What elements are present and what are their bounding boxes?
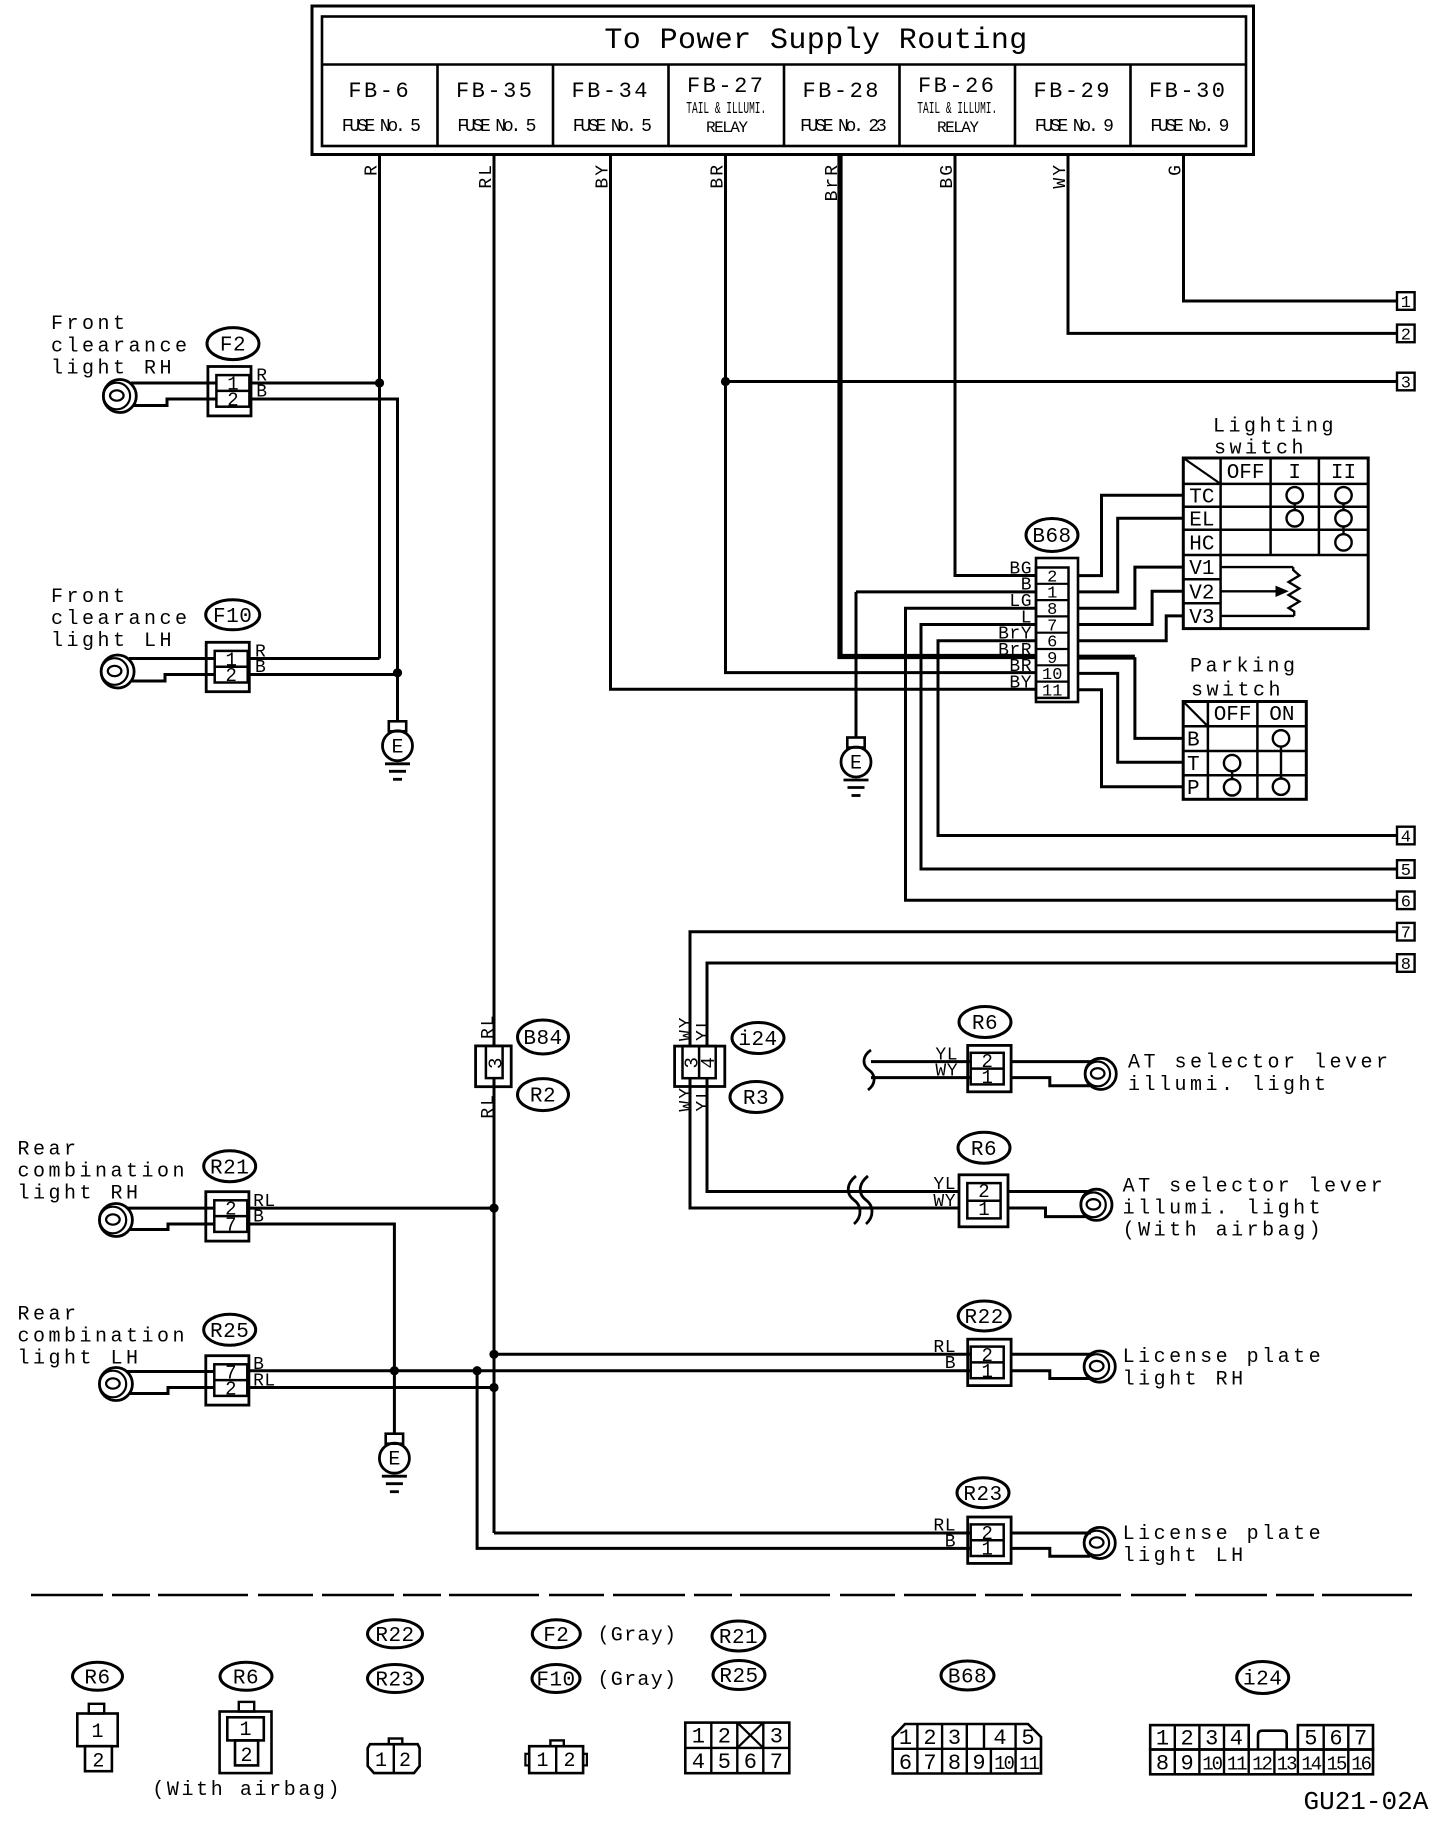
svg-text:(With airbag): (With airbag)	[152, 1779, 342, 1802]
connector ref F10	[206, 600, 260, 630]
svg-text:B: B	[1187, 730, 1200, 753]
svg-text:FB-28: FB-28	[802, 79, 881, 104]
wire RL R25 to RL vertical	[246, 1386, 494, 1389]
wire B68 pin8 to lighting V1	[1078, 567, 1183, 608]
connector ref B68	[1026, 519, 1078, 552]
break symbol R6 wires	[864, 1050, 874, 1090]
legend ref R21	[712, 1621, 765, 1651]
svg-text:8: 8	[1401, 956, 1411, 975]
lamp license plate RH	[1084, 1351, 1115, 1382]
svg-text:illumi. light: illumi. light	[1123, 1198, 1325, 1221]
svg-text:2: 2	[225, 1379, 236, 1401]
svg-text:9: 9	[972, 1751, 985, 1776]
wire RL to license RH	[494, 1353, 971, 1356]
svg-text:OFF: OFF	[1227, 462, 1265, 485]
connector i24	[675, 1046, 725, 1086]
svg-text:RL: RL	[479, 1093, 499, 1119]
svg-text:1: 1	[981, 1361, 992, 1383]
wire B net to license RH	[246, 1369, 971, 1372]
wire R22 pin1 to lamp	[1010, 1371, 1090, 1379]
junction B/R25	[390, 1366, 399, 1375]
svg-text:light RH: light RH	[18, 1182, 142, 1205]
junction RL/R25	[489, 1383, 498, 1392]
legend ref F10	[532, 1665, 580, 1693]
svg-text:AT selector lever: AT selector lever	[1128, 1052, 1392, 1075]
svg-text:6: 6	[1401, 893, 1411, 912]
svg-text:4: 4	[692, 1750, 705, 1775]
svg-text:1: 1	[981, 1067, 992, 1089]
svg-text:7: 7	[225, 1215, 236, 1237]
ground E front clearance	[389, 721, 406, 731]
svg-text:FB-26: FB-26	[918, 74, 997, 99]
svg-text:10: 10	[994, 1753, 1014, 1775]
lighting contact EL-I	[1287, 510, 1303, 526]
svg-text:6: 6	[744, 1750, 757, 1775]
svg-text:R22: R22	[965, 1307, 1004, 1330]
wire RL B84 to rear lights	[493, 1078, 496, 1533]
wire R25 pin2 RL	[130, 1388, 214, 1394]
parking contact T-OFF	[1224, 755, 1240, 771]
parking contact B-ON	[1273, 730, 1289, 746]
lamp rear combination LH	[99, 1368, 132, 1401]
lamp front clearance LH	[101, 655, 134, 688]
svg-text:11: 11	[1019, 1753, 1039, 1775]
wire F2 pin1 R to junction	[131, 382, 216, 385]
svg-text:1: 1	[899, 1726, 912, 1751]
svg-text:Rear: Rear	[18, 1139, 80, 1162]
svg-text:5: 5	[1401, 862, 1411, 881]
svg-text:F2: F2	[543, 1625, 569, 1648]
svg-text:10: 10	[1202, 1754, 1222, 1776]
lighting header diagonal	[1183, 458, 1220, 484]
legend ref R22	[368, 1620, 423, 1648]
svg-text:4: 4	[1401, 829, 1411, 848]
wire B to license LH	[477, 1371, 971, 1549]
svg-text:R6: R6	[84, 1667, 110, 1690]
svg-text:B: B	[945, 1532, 956, 1552]
svg-text:Front: Front	[51, 313, 129, 336]
wire B68 pin7 L to terminal 5	[921, 625, 1397, 870]
svg-text:V1: V1	[1189, 558, 1214, 581]
rheostat V1 feed	[1221, 566, 1294, 568]
junction RL/R22	[489, 1350, 498, 1359]
wire RL vertical FB-35 to B84	[493, 155, 496, 1046]
lamp AT selector lever illumi light (with airbag)	[1081, 1189, 1112, 1220]
svg-text:8: 8	[948, 1751, 961, 1776]
svg-text:4: 4	[1230, 1727, 1243, 1752]
power supply routing box	[312, 6, 1254, 155]
svg-text:E: E	[850, 753, 862, 776]
svg-text:FUSE No. 9: FUSE No. 9	[1035, 117, 1113, 137]
svg-text:EL: EL	[1189, 509, 1214, 532]
svg-text:R6: R6	[233, 1667, 259, 1690]
svg-text:TC: TC	[1189, 486, 1214, 509]
svg-text:(Gray): (Gray)	[598, 1625, 678, 1648]
ground E rear combination	[386, 1434, 403, 1444]
svg-text:R22: R22	[375, 1625, 414, 1648]
parking contact P-OFF	[1224, 779, 1240, 795]
svg-text:YL: YL	[694, 1015, 714, 1041]
svg-text:3: 3	[948, 1726, 961, 1751]
legend connector R22/R23	[389, 1739, 403, 1745]
junction B/F10	[393, 668, 402, 677]
wire B68 pin1 B to ground	[856, 590, 1036, 593]
wire R6 airbag pin2 to lamp	[1008, 1190, 1088, 1193]
wire WY to R6 pin1	[871, 1076, 971, 1079]
svg-text:B68: B68	[1032, 526, 1071, 549]
svg-text:Lighting: Lighting	[1213, 416, 1337, 439]
svg-text:WY: WY	[933, 1192, 956, 1212]
svg-text:ON: ON	[1269, 704, 1294, 727]
svg-text:1: 1	[1156, 1727, 1169, 1752]
wire R6 airbag pin1 to lamp	[1008, 1208, 1087, 1217]
connector R6 with airbag	[959, 1175, 1008, 1227]
R21/R25 grid X cell	[737, 1723, 763, 1748]
svg-text:FB-30: FB-30	[1149, 79, 1228, 104]
wire B68 pin1 to lighting EL	[1078, 518, 1183, 592]
svg-text:FUSE No. 5: FUSE No. 5	[573, 117, 651, 137]
svg-text:FUSE No. 5: FUSE No. 5	[457, 117, 535, 137]
lamp rear combination RH	[99, 1204, 132, 1237]
wire R21 B to ground net	[246, 1224, 394, 1434]
svg-text:F2: F2	[220, 335, 246, 358]
wire B68 pin7 to lighting V2	[1078, 591, 1183, 624]
wire R25 pin7 B to B net	[127, 1370, 214, 1373]
svg-text:R6: R6	[972, 1013, 998, 1036]
svg-text:3: 3	[1205, 1727, 1218, 1752]
svg-text:Front: Front	[51, 586, 129, 609]
connector ref R23	[957, 1478, 1009, 1508]
legend ref i24	[1237, 1662, 1289, 1694]
svg-text:RL: RL	[479, 1013, 499, 1039]
svg-text:i24: i24	[1243, 1669, 1282, 1692]
svg-text:6: 6	[899, 1751, 912, 1776]
legend ref R23	[368, 1665, 423, 1693]
terminal 4	[1397, 827, 1415, 845]
wire R21 pin7 B	[130, 1224, 214, 1230]
svg-text:light LH: light LH	[1123, 1545, 1247, 1568]
svg-text:1: 1	[239, 1719, 251, 1742]
svg-text:clearance: clearance	[51, 608, 191, 631]
wire F10 pin1 R	[129, 657, 215, 660]
svg-text:R3: R3	[743, 1088, 769, 1111]
svg-text:1: 1	[536, 1750, 548, 1773]
legend ref R6	[73, 1662, 123, 1690]
connector ref R6 (with airbag)	[958, 1132, 1010, 1163]
legend ref R6 with airbag	[220, 1662, 272, 1690]
wire G to terminal 1	[1184, 155, 1398, 302]
svg-text:5: 5	[1021, 1726, 1034, 1751]
svg-text:2: 2	[563, 1750, 575, 1773]
terminal 3	[1397, 373, 1415, 391]
terminal 8	[1397, 954, 1415, 972]
connector R6 AT selector	[968, 1045, 1011, 1091]
svg-text:FB-35: FB-35	[456, 79, 535, 104]
wire BG vertical FB-26	[955, 155, 1036, 576]
svg-text:clearance: clearance	[51, 335, 191, 358]
rheostat resistor	[1289, 567, 1300, 616]
legend connector R6	[89, 1704, 104, 1714]
svg-text:License plate: License plate	[1123, 1346, 1325, 1369]
svg-text:11: 11	[1042, 683, 1062, 702]
svg-text:1: 1	[375, 1750, 387, 1773]
legend connector F2/F10	[550, 1740, 563, 1746]
legend ref F2	[532, 1620, 580, 1648]
connector ref R6 (AT selector)	[959, 1007, 1011, 1038]
svg-text:2: 2	[718, 1725, 731, 1750]
svg-text:2: 2	[92, 1751, 104, 1774]
svg-text:2: 2	[1401, 326, 1411, 345]
svg-text:GU21-02A: GU21-02A	[1304, 1787, 1429, 1817]
svg-text:T: T	[1187, 754, 1200, 777]
contact link OFF column	[1231, 771, 1233, 779]
wire R6 pin1 to lamp	[1010, 1078, 1091, 1086]
connector ref R21	[204, 1151, 256, 1182]
wire B68 pin11 to parking P	[1078, 690, 1183, 787]
wire WY i24 to R6 with airbag	[690, 1078, 959, 1208]
svg-text:combination: combination	[18, 1325, 189, 1348]
svg-text:F10: F10	[536, 1670, 575, 1693]
wire BY vertical FB-34	[611, 155, 1037, 690]
connector F10	[206, 642, 249, 691]
svg-text:1: 1	[692, 1725, 705, 1750]
svg-text:Parking: Parking	[1190, 656, 1299, 679]
wire B68 pin2 to lighting TC	[1078, 495, 1183, 575]
svg-text:combination: combination	[18, 1160, 189, 1183]
svg-text:P: P	[1187, 778, 1200, 801]
wire R6 pin2 to lamp	[1010, 1060, 1092, 1063]
parking contact P-ON	[1273, 779, 1289, 795]
svg-text:2: 2	[225, 665, 236, 687]
legend ref B68	[941, 1661, 994, 1690]
svg-text:6: 6	[1329, 1727, 1342, 1752]
svg-text:R23: R23	[375, 1670, 414, 1693]
svg-text:RELAY: RELAY	[706, 119, 748, 137]
svg-text:5: 5	[718, 1750, 731, 1775]
ground E lighting switch	[847, 738, 864, 748]
wire R23 pin1 to lamp	[1010, 1548, 1090, 1556]
svg-text:9: 9	[1180, 1752, 1193, 1777]
junction B branch to R23	[473, 1366, 482, 1375]
legend connector B68 grid	[893, 1724, 1041, 1774]
wire F2 pin2 B	[134, 399, 216, 406]
svg-text:14: 14	[1301, 1754, 1321, 1776]
wire BR vertical FB-27	[726, 155, 1037, 673]
legend connector R21/R25 grid	[685, 1723, 789, 1774]
break symbol WY/YL pair	[848, 1176, 860, 1224]
svg-text:R23: R23	[963, 1484, 1002, 1507]
svg-text:B84: B84	[523, 1028, 562, 1051]
junction R/F2	[375, 378, 384, 387]
connector B68 outer	[1036, 558, 1078, 702]
svg-text:TAIL & ILLUMI.: TAIL & ILLUMI.	[686, 101, 766, 120]
svg-text:License plate: License plate	[1123, 1523, 1325, 1546]
svg-text:12: 12	[1252, 1754, 1272, 1776]
svg-text:illumi. light: illumi. light	[1128, 1074, 1330, 1097]
wire YL to R6 pin2	[871, 1060, 971, 1063]
svg-text:7: 7	[923, 1751, 936, 1776]
svg-text:1: 1	[978, 1199, 989, 1221]
contact link ON column	[1280, 747, 1282, 779]
svg-text:R25: R25	[210, 1321, 249, 1344]
svg-text:B: B	[945, 1354, 956, 1374]
svg-text:FB-27: FB-27	[687, 74, 766, 99]
connector ref R2	[518, 1079, 569, 1111]
svg-text:light LH: light LH	[18, 1347, 142, 1370]
svg-text:16: 16	[1351, 1754, 1371, 1776]
terminal 1	[1397, 292, 1415, 310]
svg-text:OFF: OFF	[1214, 704, 1252, 727]
svg-text:HC: HC	[1189, 533, 1214, 556]
contact link I column	[1293, 504, 1295, 511]
wire B68 pin6 to lighting V3	[1078, 616, 1183, 641]
svg-text:i24: i24	[738, 1029, 777, 1052]
connector ref R3	[730, 1082, 782, 1113]
connector ref R25	[204, 1314, 256, 1345]
svg-text:RELAY: RELAY	[937, 119, 979, 137]
lamp AT selector lever illumi light	[1085, 1058, 1116, 1089]
connector R21	[206, 1192, 249, 1241]
svg-text:4: 4	[698, 1057, 720, 1068]
wire R21 pin2 RL to RL wire	[127, 1207, 214, 1210]
wire F10 B to ground vertical	[248, 673, 398, 676]
rheostat V3 feed	[1221, 615, 1295, 617]
connector R25	[206, 1356, 249, 1405]
svg-text:B68: B68	[948, 1667, 987, 1690]
svg-text:8: 8	[1156, 1752, 1169, 1777]
svg-text:YL: YL	[694, 1086, 714, 1112]
wire R23 pin2 to lamp	[1010, 1532, 1091, 1535]
svg-text:V2: V2	[1189, 582, 1214, 605]
svg-text:R25: R25	[719, 1666, 758, 1689]
lighting contact EL-II	[1335, 510, 1351, 526]
svg-text:FUSE No. 9: FUSE No. 9	[1150, 117, 1228, 137]
svg-text:R21: R21	[719, 1627, 758, 1650]
svg-text:R2: R2	[530, 1086, 556, 1109]
svg-text:3: 3	[486, 1058, 508, 1069]
connector ref B84	[518, 1020, 569, 1054]
svg-text:R6: R6	[971, 1139, 997, 1162]
svg-text:4: 4	[993, 1726, 1006, 1751]
connector R23	[968, 1517, 1011, 1563]
wire BrR thick FB-28	[840, 155, 1036, 657]
svg-text:7: 7	[1354, 1727, 1367, 1752]
wire B down to ground	[249, 399, 398, 721]
wire BR branch to terminal 3	[726, 380, 1398, 383]
svg-text:2: 2	[399, 1750, 411, 1773]
svg-text:1: 1	[1401, 294, 1411, 313]
lighting contact TC-II	[1335, 487, 1351, 503]
connector R22	[968, 1339, 1011, 1385]
connector B84	[476, 1046, 512, 1087]
svg-text:To Power Supply Routing: To Power Supply Routing	[604, 24, 1027, 58]
svg-text:2: 2	[923, 1726, 936, 1751]
wire terminal 8 YL to i24 pin4	[707, 963, 1397, 1046]
svg-text:FB-6: FB-6	[348, 79, 411, 104]
wire WY to terminal 2	[1068, 155, 1397, 334]
svg-text:FUSE No. 23: FUSE No. 23	[800, 117, 886, 137]
parking header diagonal	[1183, 702, 1208, 727]
wire R vertical FB-6 to F10	[378, 155, 381, 659]
svg-text:WY: WY	[935, 1061, 958, 1081]
svg-text:F10: F10	[213, 606, 252, 629]
terminal 6	[1397, 892, 1415, 910]
junction RL/R21	[489, 1204, 498, 1213]
svg-text:5: 5	[1304, 1727, 1317, 1752]
wire R22 pin2 to lamp	[1010, 1353, 1091, 1356]
dashed separator	[31, 1594, 1412, 1597]
terminal 5	[1397, 860, 1415, 878]
svg-text:15: 15	[1327, 1754, 1347, 1776]
lighting contact TC-I	[1287, 487, 1303, 503]
wire B68 pin8 LG to terminal 6	[906, 608, 1398, 900]
svg-text:E: E	[388, 1449, 400, 1472]
svg-text:(With airbag): (With airbag)	[1123, 1220, 1325, 1243]
svg-text:1: 1	[981, 1539, 992, 1561]
wire YL i24 to R6 with airbag	[707, 1078, 959, 1191]
parking switch table	[1183, 702, 1306, 800]
connector B68 cells	[1036, 568, 1069, 698]
svg-text:light RH: light RH	[51, 358, 175, 381]
svg-text:BY: BY	[1009, 674, 1032, 694]
wire F10 pin2 B	[132, 675, 215, 682]
wire B68 pin10 to parking T	[1078, 673, 1183, 762]
legend connector i24 grid	[1150, 1750, 1373, 1775]
svg-text:2: 2	[1180, 1727, 1193, 1752]
svg-text:AT selector lever: AT selector lever	[1123, 1175, 1387, 1198]
wire terminal 7 WY to i24 pin3	[690, 932, 1397, 1046]
svg-text:3: 3	[770, 1725, 783, 1750]
lighting contact HC-II	[1335, 534, 1351, 550]
svg-text:light RH: light RH	[1123, 1368, 1247, 1391]
svg-text:TAIL & ILLUMI.: TAIL & ILLUMI.	[917, 101, 997, 120]
lighting switch table	[1183, 458, 1368, 629]
svg-text:V3: V3	[1189, 607, 1214, 630]
svg-text:11: 11	[1227, 1754, 1247, 1776]
connector ref R22	[958, 1301, 1010, 1331]
contact link II column	[1342, 504, 1344, 511]
svg-text:II: II	[1331, 462, 1356, 485]
svg-text:switch: switch	[1191, 680, 1284, 703]
svg-text:3: 3	[1401, 375, 1411, 394]
legend connector R6 with airbag	[239, 1702, 254, 1712]
connector ref i24	[732, 1023, 784, 1054]
svg-text:R21: R21	[210, 1157, 249, 1180]
svg-text:I: I	[1288, 462, 1301, 485]
svg-text:2: 2	[240, 1745, 252, 1768]
svg-text:1: 1	[91, 1721, 103, 1744]
lamp license plate LH	[1084, 1527, 1115, 1558]
svg-text:7: 7	[770, 1750, 783, 1775]
svg-text:light LH: light LH	[51, 630, 175, 653]
junction BR/terminal3	[721, 377, 730, 386]
svg-text:FB-29: FB-29	[1033, 79, 1112, 104]
svg-text:E: E	[391, 736, 403, 759]
svg-text:13: 13	[1277, 1754, 1297, 1776]
terminal 2	[1397, 325, 1415, 343]
wire B68 pin9 to parking B	[1078, 655, 1135, 660]
svg-text:Rear: Rear	[18, 1303, 80, 1326]
svg-text:2: 2	[227, 389, 238, 411]
legend ref R25	[713, 1661, 765, 1690]
svg-text:FUSE No. 5: FUSE No. 5	[342, 117, 420, 137]
lamp front clearance RH	[103, 380, 136, 413]
wire B68 pin6 BrY to terminal 4	[938, 641, 1397, 836]
connector ref F2	[207, 328, 259, 360]
terminal 7	[1397, 923, 1415, 941]
wire RL to license LH	[494, 1532, 971, 1535]
svg-text:FB-34: FB-34	[571, 79, 650, 104]
